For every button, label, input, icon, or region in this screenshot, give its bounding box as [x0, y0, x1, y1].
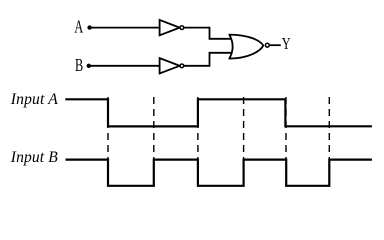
svg-text:A: A — [74, 17, 83, 37]
svg-text:Input A: Input A — [10, 91, 58, 108]
svg-text:Input B: Input B — [10, 149, 58, 166]
svg-text:Y: Y — [282, 35, 291, 53]
svg-text:B: B — [75, 56, 83, 76]
